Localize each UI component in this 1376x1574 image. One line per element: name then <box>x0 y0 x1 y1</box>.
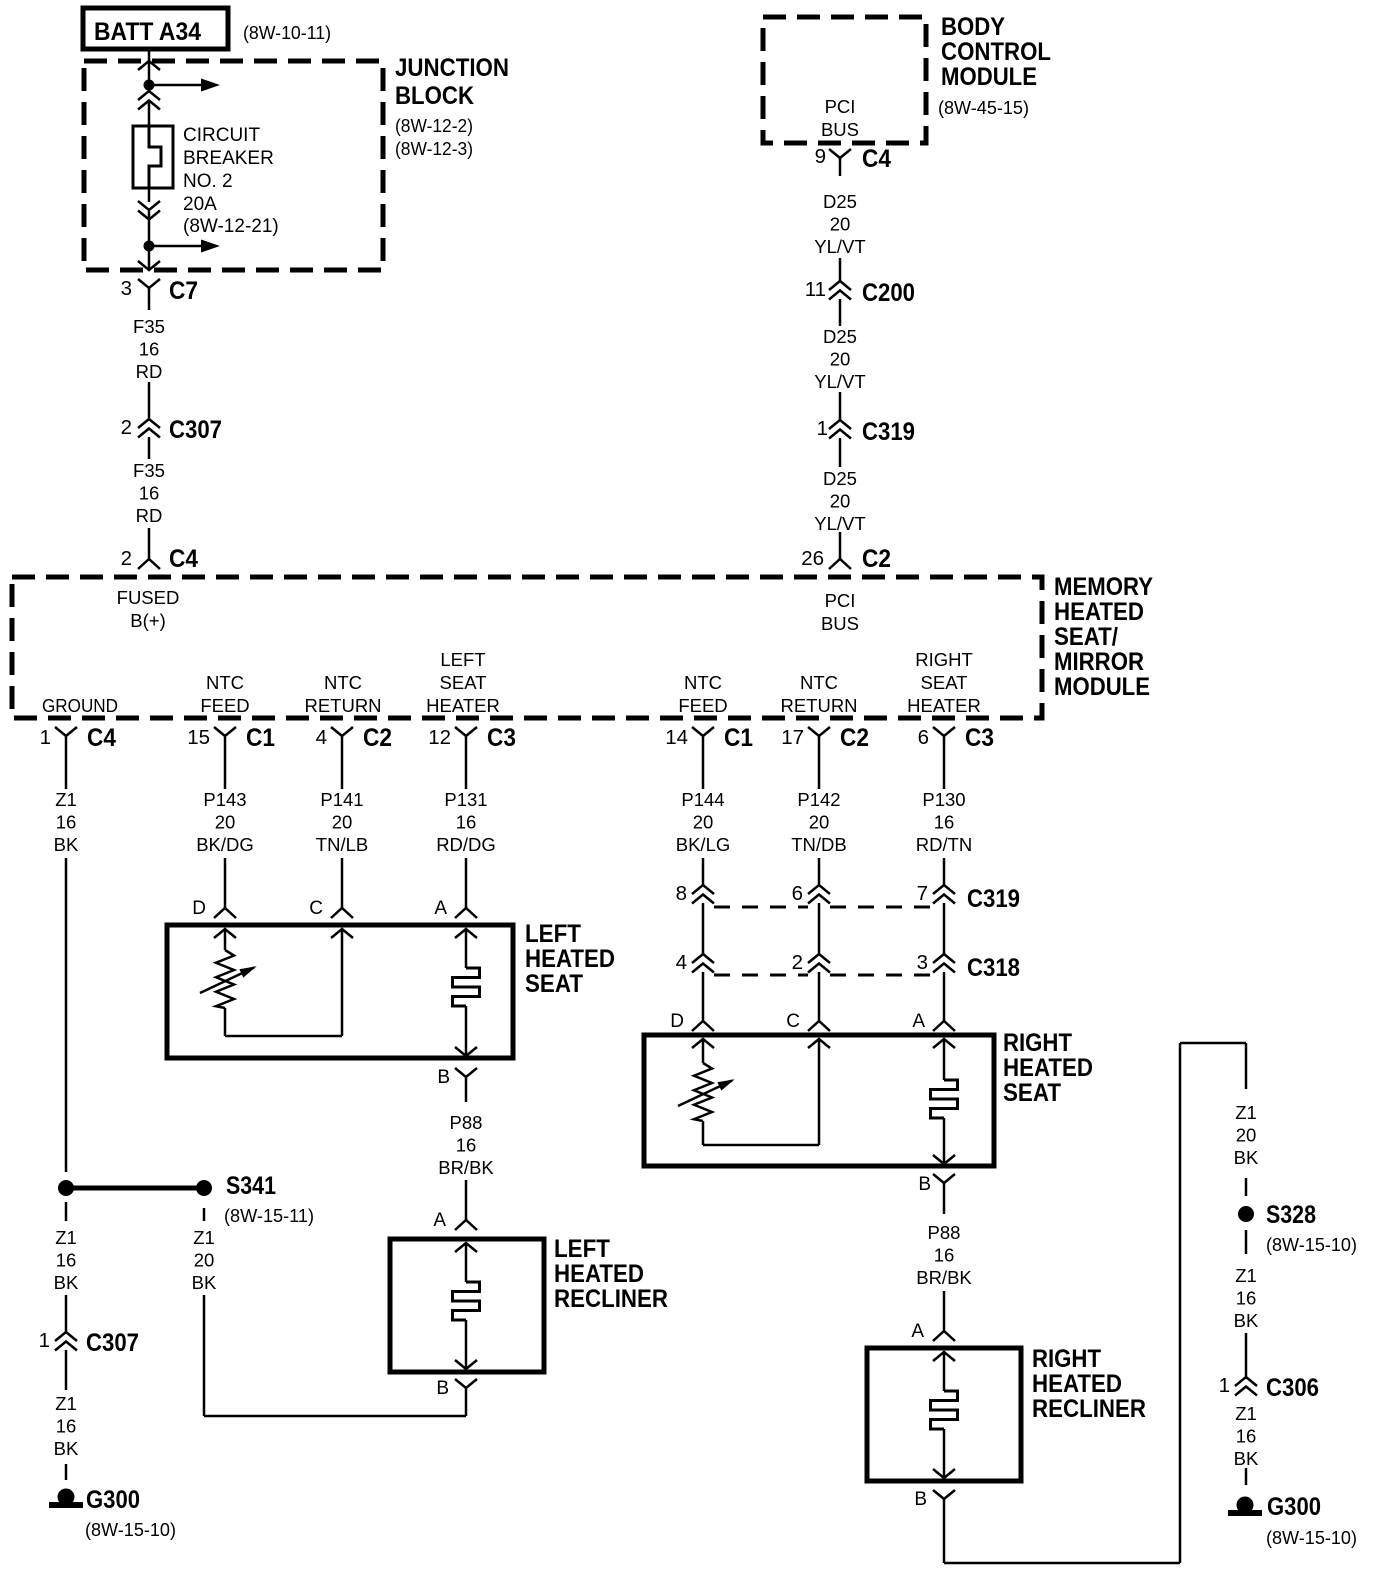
svg-text:C307: C307 <box>86 1329 139 1357</box>
dashed wire links at C318 <box>714 974 808 977</box>
svg-text:(8W-15-10): (8W-15-10) <box>1266 1235 1357 1255</box>
wire to circuit breaker <box>148 101 151 127</box>
node junction dot upper <box>144 80 155 91</box>
svg-text:P88: P88 <box>450 1112 483 1133</box>
junction block (dashed) <box>84 61 383 270</box>
svg-text:F35: F35 <box>133 316 165 337</box>
svg-text:C3: C3 <box>965 724 994 752</box>
svg-text:20A: 20A <box>183 194 217 215</box>
svg-text:BK: BK <box>1234 1310 1259 1331</box>
svg-text:(8W-12-21): (8W-12-21) <box>183 216 279 237</box>
svg-text:Z1: Z1 <box>1235 1102 1257 1123</box>
svg-text:LEFT: LEFT <box>525 920 581 948</box>
svg-text:BODY: BODY <box>941 13 1005 41</box>
svg-text:C4: C4 <box>169 545 198 573</box>
svg-text:MEMORY: MEMORY <box>1054 573 1153 601</box>
svg-text:BR/BK: BR/BK <box>916 1267 972 1288</box>
svg-text:LEFT: LEFT <box>554 1235 610 1263</box>
svg-text:BUS: BUS <box>821 613 859 634</box>
svg-text:(8W-15-10): (8W-15-10) <box>1266 1528 1357 1548</box>
svg-text:16: 16 <box>456 1135 477 1156</box>
connector C319 row pins 8 6 7 <box>692 885 714 894</box>
svg-text:(8W-15-11): (8W-15-11) <box>224 1206 314 1226</box>
svg-text:16: 16 <box>1236 1288 1257 1309</box>
svg-text:SEAT/: SEAT/ <box>1054 623 1118 651</box>
svg-text:(8W-15-10): (8W-15-10) <box>85 1520 176 1540</box>
svg-text:C2: C2 <box>363 724 392 752</box>
svg-text:BK: BK <box>54 1272 79 1293</box>
svg-text:NTC: NTC <box>206 672 244 693</box>
svg-text:16: 16 <box>139 483 160 504</box>
wire thermistor to NTC return right <box>703 1144 819 1147</box>
wire D25 20 YL/VT third <box>839 438 842 467</box>
svg-text:20: 20 <box>1236 1125 1257 1146</box>
svg-text:(8W-10-11): (8W-10-11) <box>243 23 331 43</box>
svg-text:BK: BK <box>1234 1147 1259 1168</box>
svg-text:2: 2 <box>121 416 132 439</box>
svg-text:20: 20 <box>215 812 236 833</box>
svg-text:16: 16 <box>56 812 77 833</box>
svg-text:1: 1 <box>1219 1374 1230 1397</box>
svg-text:17: 17 <box>781 726 804 749</box>
svg-text:YL/VT: YL/VT <box>814 236 865 257</box>
svg-text:YL/VT: YL/VT <box>814 513 865 534</box>
svg-text:C319: C319 <box>862 418 915 446</box>
svg-text:HEATED: HEATED <box>1054 598 1144 626</box>
svg-text:20: 20 <box>830 349 851 370</box>
ground G300 left <box>58 1489 75 1506</box>
svg-text:4: 4 <box>676 951 687 974</box>
svg-text:HEATED: HEATED <box>1032 1370 1122 1398</box>
svg-text:F35: F35 <box>133 460 165 481</box>
circuit breaker No.2 20A <box>133 126 173 188</box>
left recliner pin A connector <box>455 1220 477 1230</box>
module pin 2 C4 connector <box>138 559 160 569</box>
connector C306 pin 1 <box>1235 1377 1257 1386</box>
svg-text:CIRCUIT: CIRCUIT <box>183 125 260 146</box>
svg-text:C4: C4 <box>87 724 116 752</box>
svg-text:D: D <box>192 898 206 919</box>
wire thermistor to NTC return <box>225 1035 342 1038</box>
svg-text:(8W-45-15): (8W-45-15) <box>938 98 1029 118</box>
right recliner pin B connector <box>933 1490 955 1499</box>
svg-text:S341: S341 <box>226 1172 276 1200</box>
svg-text:16: 16 <box>56 1250 77 1271</box>
svg-text:C7: C7 <box>169 277 198 305</box>
right seat pin B connector <box>933 1174 955 1183</box>
connector C319 pin 1 inline <box>829 420 851 429</box>
svg-text:A: A <box>911 1321 924 1342</box>
wire stub below S341 <box>203 1208 206 1221</box>
inline connector chevrons below dot <box>138 91 160 100</box>
svg-text:MIRROR: MIRROR <box>1054 648 1144 676</box>
svg-text:20: 20 <box>693 812 714 833</box>
module pin 6 C3 connector <box>933 727 955 736</box>
svg-text:RIGHT: RIGHT <box>1003 1029 1072 1057</box>
left heated seat box <box>167 925 513 1058</box>
svg-text:15: 15 <box>187 726 210 749</box>
svg-text:Z1: Z1 <box>55 1393 77 1414</box>
right heated seat box <box>644 1035 994 1166</box>
dashed wire links at C319 <box>714 906 808 909</box>
svg-text:20: 20 <box>332 812 353 833</box>
svg-text:16: 16 <box>456 812 477 833</box>
svg-text:P142: P142 <box>797 789 840 810</box>
svg-text:RECLINER: RECLINER <box>554 1285 668 1313</box>
module pin 17 C2 connector <box>808 727 830 736</box>
svg-text:1: 1 <box>40 726 51 749</box>
left seat pin B connector <box>455 1068 477 1077</box>
svg-text:C1: C1 <box>246 724 275 752</box>
svg-text:NO. 2: NO. 2 <box>183 171 233 192</box>
svg-text:B: B <box>436 1378 449 1399</box>
svg-text:3: 3 <box>121 277 132 300</box>
connector C200 pin 11 <box>829 281 851 290</box>
svg-text:12: 12 <box>428 726 451 749</box>
svg-text:1: 1 <box>39 1329 50 1352</box>
left recliner pin B connector <box>455 1379 477 1388</box>
svg-text:16: 16 <box>56 1416 77 1437</box>
splice S328 <box>1238 1206 1254 1222</box>
node junction dot lower <box>144 241 155 252</box>
svg-text:FUSED: FUSED <box>117 587 180 608</box>
svg-text:NTC: NTC <box>684 672 722 693</box>
svg-text:20: 20 <box>194 1250 215 1271</box>
svg-text:NTC: NTC <box>324 672 362 693</box>
svg-text:14: 14 <box>665 726 688 749</box>
svg-text:PCI: PCI <box>825 590 856 611</box>
right seat thermistor (variable resistor) <box>692 1039 714 1048</box>
svg-text:YL/VT: YL/VT <box>814 371 865 392</box>
svg-text:C319: C319 <box>967 885 1020 913</box>
left seat thermistor (variable resistor) <box>214 929 236 938</box>
svg-text:Z1: Z1 <box>1235 1265 1257 1286</box>
svg-text:RETURN: RETURN <box>780 695 857 716</box>
svg-text:B(+): B(+) <box>130 610 165 631</box>
svg-text:2: 2 <box>792 951 803 974</box>
svg-text:RD/DG: RD/DG <box>436 834 496 855</box>
svg-text:(8W-12-2): (8W-12-2) <box>395 116 473 136</box>
svg-text:20: 20 <box>809 812 830 833</box>
svg-text:G300: G300 <box>86 1486 140 1514</box>
right seat heater element <box>933 1039 955 1048</box>
svg-text:Z1: Z1 <box>55 789 77 810</box>
svg-text:Z1: Z1 <box>55 1227 77 1248</box>
svg-text:C1: C1 <box>724 724 753 752</box>
svg-text:SEAT: SEAT <box>525 970 583 998</box>
wire F35 16 RD upper <box>148 382 151 419</box>
svg-text:16: 16 <box>139 339 160 360</box>
module pin 14 C1 connector <box>692 727 714 736</box>
svg-text:B: B <box>437 1067 450 1088</box>
connector C307 pin 2 upper <box>138 419 160 428</box>
module pin 26 C2 connector <box>829 559 851 569</box>
svg-text:BUS: BUS <box>821 119 859 140</box>
wire stub below ground splice dot <box>65 1202 68 1221</box>
svg-text:2: 2 <box>121 547 132 570</box>
svg-text:16: 16 <box>1236 1426 1257 1447</box>
battery feed box BATT A34 <box>83 8 228 49</box>
svg-text:RD: RD <box>136 505 163 526</box>
svg-text:C4: C4 <box>862 145 891 173</box>
svg-text:26: 26 <box>801 547 824 570</box>
svg-text:A: A <box>433 1210 446 1231</box>
body control module box (dashed) <box>763 17 926 143</box>
right recliner heater element <box>933 1352 955 1361</box>
svg-text:4: 4 <box>316 726 327 749</box>
wire feed arrow right upper <box>149 84 202 87</box>
svg-text:HEATER: HEATER <box>907 695 981 716</box>
svg-text:C200: C200 <box>862 279 915 307</box>
module pin 15 C1 connector <box>214 727 236 736</box>
wire to lower junction dot <box>148 211 151 246</box>
wires C318 to right seat pins <box>702 972 705 1021</box>
svg-text:FEED: FEED <box>200 695 249 716</box>
svg-text:A: A <box>434 898 447 919</box>
svg-text:BK: BK <box>54 834 79 855</box>
svg-text:D25: D25 <box>823 468 857 489</box>
svg-text:SEAT: SEAT <box>1003 1079 1061 1107</box>
svg-text:RD/TN: RD/TN <box>916 834 973 855</box>
svg-text:1: 1 <box>817 417 828 440</box>
svg-text:C2: C2 <box>862 545 891 573</box>
svg-text:SEAT: SEAT <box>440 672 487 693</box>
arrow up into BATT A34 <box>138 61 160 70</box>
svg-text:S328: S328 <box>1266 1201 1316 1229</box>
svg-text:P131: P131 <box>444 789 487 810</box>
svg-text:G300: G300 <box>1267 1493 1321 1521</box>
svg-text:B: B <box>918 1174 931 1195</box>
svg-text:BREAKER: BREAKER <box>183 148 274 169</box>
svg-text:BK/DG: BK/DG <box>196 834 254 855</box>
svg-text:D25: D25 <box>823 326 857 347</box>
wire to junction block edge with down arrow <box>148 246 151 270</box>
svg-text:P144: P144 <box>681 789 724 810</box>
svg-text:BK: BK <box>1234 1448 1259 1469</box>
svg-text:8: 8 <box>676 882 687 905</box>
svg-text:RETURN: RETURN <box>304 695 381 716</box>
svg-text:RIGHT: RIGHT <box>1032 1345 1101 1373</box>
svg-text:PCI: PCI <box>825 96 856 117</box>
svg-text:D25: D25 <box>823 191 857 212</box>
wire below circuit breaker <box>148 188 151 202</box>
svg-text:SEAT: SEAT <box>921 672 968 693</box>
inline connector chevrons pointing down <box>138 201 160 210</box>
svg-text:C318: C318 <box>967 954 1020 982</box>
module pin 4 C2 connector <box>331 727 353 736</box>
svg-text:P143: P143 <box>203 789 246 810</box>
svg-text:16: 16 <box>934 812 955 833</box>
svg-text:BATT A34: BATT A34 <box>94 18 201 46</box>
module pin 12 C3 connector <box>455 727 477 736</box>
svg-text:D: D <box>670 1011 684 1032</box>
svg-text:P141: P141 <box>320 789 363 810</box>
svg-text:MODULE: MODULE <box>1054 673 1150 701</box>
memory heated seat/mirror module box (dashed) <box>12 577 1042 718</box>
svg-text:C: C <box>309 898 323 919</box>
connector C318 row pins 4 2 3 <box>692 954 714 963</box>
svg-text:20: 20 <box>830 491 851 512</box>
svg-text:6: 6 <box>918 726 929 749</box>
connector C307 pin 1 lower <box>55 1332 77 1341</box>
svg-text:BLOCK: BLOCK <box>395 82 474 110</box>
wire F35 16 RD lower <box>148 437 151 459</box>
module pin 1 C4 connector <box>55 727 77 736</box>
svg-text:NTC: NTC <box>800 672 838 693</box>
BCM pin 9 C4 connector <box>829 149 851 158</box>
right heated recliner box <box>867 1348 1021 1481</box>
wires C319 to C318 <box>702 903 705 954</box>
svg-text:RIGHT: RIGHT <box>915 649 973 670</box>
svg-text:C3: C3 <box>487 724 516 752</box>
svg-text:RD: RD <box>136 361 163 382</box>
wire recliner B to right ground chain <box>943 1520 946 1563</box>
svg-text:JUNCTION: JUNCTION <box>395 54 509 82</box>
left seat heater element <box>455 929 477 938</box>
wire recliner B to splice S341 branch <box>204 1415 466 1418</box>
svg-text:CONTROL: CONTROL <box>941 38 1051 66</box>
svg-text:20: 20 <box>830 214 851 235</box>
svg-text:6: 6 <box>792 882 803 905</box>
svg-text:HEATED: HEATED <box>525 945 615 973</box>
svg-text:HEATED: HEATED <box>554 1260 644 1288</box>
connector C7 pin 3 <box>138 279 160 288</box>
svg-text:C: C <box>786 1011 800 1032</box>
svg-text:MODULE: MODULE <box>941 63 1037 91</box>
svg-text:HEATER: HEATER <box>426 695 500 716</box>
svg-text:3: 3 <box>917 951 928 974</box>
ground G300 right <box>1237 1497 1254 1514</box>
splice S341 <box>58 1180 74 1196</box>
svg-text:16: 16 <box>934 1245 955 1266</box>
svg-text:P130: P130 <box>922 789 965 810</box>
wire feed arrow right lower <box>149 245 202 248</box>
svg-text:RECLINER: RECLINER <box>1032 1395 1146 1423</box>
svg-text:FEED: FEED <box>678 695 727 716</box>
svg-text:C306: C306 <box>1266 1374 1319 1402</box>
svg-text:BR/BK: BR/BK <box>438 1157 494 1178</box>
svg-text:9: 9 <box>815 145 826 168</box>
svg-text:C2: C2 <box>840 724 869 752</box>
left heated recliner box <box>390 1239 544 1372</box>
svg-text:BK/LG: BK/LG <box>676 834 731 855</box>
svg-text:TN/DB: TN/DB <box>791 834 847 855</box>
left heated seat pins D C A <box>214 908 236 918</box>
svg-text:Z1: Z1 <box>1235 1403 1257 1424</box>
svg-text:P88: P88 <box>928 1222 961 1243</box>
svg-text:BK: BK <box>54 1438 79 1459</box>
svg-text:LEFT: LEFT <box>440 649 485 670</box>
left recliner heater element <box>455 1243 477 1252</box>
right heated seat pins D C A <box>692 1021 714 1031</box>
right recliner pin A connector <box>933 1331 955 1341</box>
svg-text:C307: C307 <box>169 416 222 444</box>
svg-text:7: 7 <box>917 882 928 905</box>
svg-text:BK: BK <box>192 1272 217 1293</box>
svg-text:TN/LB: TN/LB <box>316 834 368 855</box>
wire BATT A34 to junction dot <box>148 51 151 85</box>
svg-text:B: B <box>914 1489 927 1510</box>
svg-text:A: A <box>912 1011 925 1032</box>
svg-text:HEATED: HEATED <box>1003 1054 1093 1082</box>
svg-text:11: 11 <box>805 278 826 301</box>
svg-text:GROUND: GROUND <box>42 695 118 716</box>
svg-text:Z1: Z1 <box>193 1227 215 1248</box>
svg-text:(8W-12-3): (8W-12-3) <box>395 139 473 159</box>
wire Z1 16 BK to G300 <box>65 1350 68 1390</box>
wire D25 20 YL/VT second <box>839 299 842 326</box>
